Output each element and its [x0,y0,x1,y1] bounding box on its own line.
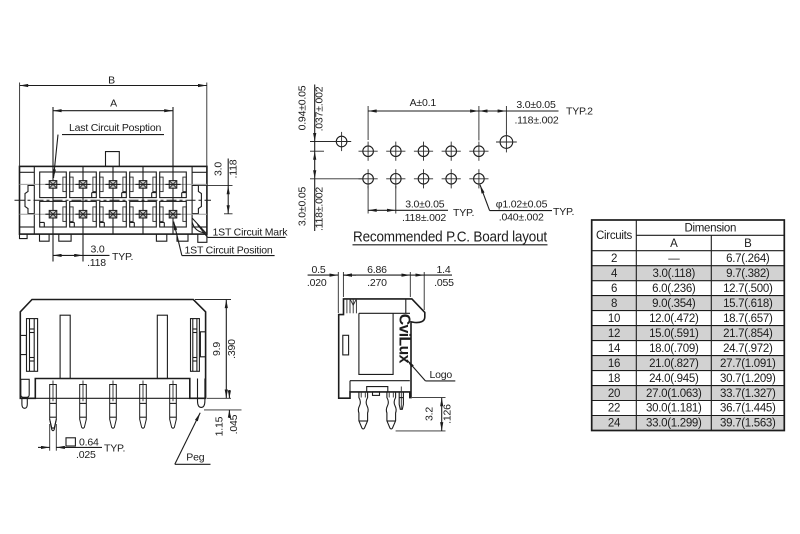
svg-text:.390: .390 [226,339,238,359]
svg-text:0.5: 0.5 [312,264,326,276]
svg-text:TYP.2: TYP.2 [566,105,593,117]
svg-text:Circuits: Circuits [596,230,632,242]
U cavity [359,313,393,374]
pad holes bottom row [359,169,489,188]
svg-text:—: — [668,253,680,265]
svg-text:24.0(.945): 24.0(.945) [649,373,699,385]
dimension 3.0/.118 (row spacing, right) [196,159,239,214]
svg-text:1ST Circuit Mark: 1ST Circuit Mark [213,227,289,239]
dimension A [53,98,173,111]
left peg stub [22,398,27,408]
svg-text:.055: .055 [434,277,454,289]
svg-text:33.7(1.327): 33.7(1.327) [720,388,776,400]
svg-text:33.0(1.299): 33.0(1.299) [646,418,702,430]
contacts top row [45,181,60,189]
right side latch profile [192,186,201,214]
svg-text:20: 20 [608,388,620,400]
svg-text:12: 12 [608,328,620,340]
svg-text:φ1.02±0.05: φ1.02±0.05 [496,199,548,211]
cavity cells bottom row [40,201,187,227]
connector body outline [20,166,207,234]
svg-text:.118: .118 [87,257,106,269]
svg-text:9.0(.354): 9.0(.354) [652,298,696,310]
top polarization tab [106,152,120,167]
dimension φ1.02±0.05/.040±.002 TYP. (hole dia) [480,185,574,224]
dimension 3.0±0.05/.118±.002 (left, row spacing) [296,170,362,231]
svg-text:Logo: Logo [430,369,453,381]
svg-text:.126: .126 [441,404,453,424]
title: Recommended P.C. Board layout [353,230,548,246]
svg-text:24: 24 [608,418,621,430]
svg-text:Recommended P.C. Board layout: Recommended P.C. Board layout [353,230,547,246]
table grid [592,220,785,431]
table data text [608,253,776,430]
dimension 3.2/.126 [396,398,454,431]
svg-text:.118: .118 [227,159,239,178]
column centerlines [53,107,173,262]
horizontal dash-dot centerline [15,199,212,201]
left peg (front) [21,379,29,397]
dimension 3.0±0.05/.118±.002 TYP.2 (peg offset) [479,99,593,133]
svg-text:Peg: Peg [186,452,204,464]
svg-text:3.0±0.05: 3.0±0.05 [405,199,445,211]
svg-text:.270: .270 [367,277,387,289]
svg-text:3.0: 3.0 [213,162,225,176]
svg-text:18: 18 [608,373,620,385]
dimension 3.0/.118 TYP (pitch, bottom) [53,243,133,269]
svg-text:30.7(1.209): 30.7(1.209) [720,373,776,385]
svg-text:8: 8 [611,298,617,310]
svg-text:6.7(.264): 6.7(.264) [726,253,770,265]
svg-text:6.86: 6.86 [367,264,387,276]
label: Logo [407,360,456,381]
right latch block [191,319,200,372]
1st circuit mark arc [192,218,206,234]
left side latch profile [25,186,34,214]
left latch block [27,319,38,372]
svg-text:.118±.002: .118±.002 [402,212,446,224]
left edge pocket [20,335,26,354]
svg-text:3.0: 3.0 [91,243,105,255]
dimension 6.86/.270 [343,264,410,297]
dimension A±0.1 [368,97,479,141]
svg-text:TYP.: TYP. [453,207,474,219]
side view body outline [20,300,205,399]
svg-text:B: B [744,238,752,250]
svg-text:4: 4 [611,268,618,280]
svg-text:15.7(.618): 15.7(.618) [723,298,773,310]
svg-text:18.7(.657): 18.7(.657) [723,313,773,325]
svg-text:3.0±0.05: 3.0±0.05 [296,187,308,227]
svg-text:27.7(1.091): 27.7(1.091) [720,358,776,370]
svg-text:6: 6 [611,283,617,295]
nose inner line [405,299,407,313]
svg-text:1.15: 1.15 [214,416,226,436]
peg hole right [496,132,517,153]
svg-text:.025: .025 [76,449,96,461]
cavity corner notches [40,193,187,227]
dimension 1.4/.055 [410,264,454,310]
svg-text:0.94±0.05: 0.94±0.05 [296,85,308,130]
pin 1 (long taper) [50,419,57,430]
svg-text:22: 22 [608,403,620,415]
svg-text:.045: .045 [228,414,240,434]
svg-text:16: 16 [608,358,620,370]
svg-text:CviLux: CviLux [396,314,413,364]
label: Peg [175,413,211,465]
svg-text:39.7(1.563): 39.7(1.563) [720,418,776,430]
dimension 9.9/.390 (height) [195,300,238,399]
svg-text:TYP.: TYP. [553,206,574,218]
svg-text:2: 2 [611,253,617,265]
svg-text:B: B [108,75,115,87]
svg-text:24.7(.972): 24.7(.972) [723,343,773,355]
row centerlines (gray) [20,183,207,185]
svg-text:15.0(.591): 15.0(.591) [649,328,699,340]
svg-text:3.0(.118): 3.0(.118) [653,268,696,280]
right peg [198,379,205,408]
dimension 0.64/.025 TYP. (pin square) [38,436,125,461]
svg-text:21.0(.827): 21.0(.827) [649,358,699,370]
svg-text:36.7(1.445): 36.7(1.445) [720,403,776,415]
svg-text:.118±.002: .118±.002 [314,187,326,231]
svg-text:.037±.002: .037±.002 [314,86,326,131]
table shaded rows [592,266,785,431]
peg hole left [332,132,351,151]
svg-text:1.4: 1.4 [437,264,451,276]
bottom center tab [367,387,388,392]
pad holes top row [359,142,489,161]
pin 1 extension lines [50,424,57,451]
svg-text:6.0(.236): 6.0(.236) [652,283,696,295]
svg-text:0.64: 0.64 [79,436,99,448]
right edge pocket [200,332,205,357]
svg-text:TYP.: TYP. [104,443,125,455]
svg-text:21.7(.854): 21.7(.854) [723,328,773,340]
board peg (profile) [399,387,403,410]
svg-text:9.9: 9.9 [211,342,223,356]
svg-text:Dimension: Dimension [684,223,736,235]
contacts bottom row [45,210,60,218]
svg-text:9.7(.382): 9.7(.382) [726,268,770,280]
svg-text:10: 10 [608,313,620,325]
dimension 0.5/.020 [307,264,356,313]
center slots [60,315,70,378]
crimp pin left [358,392,368,429]
roof underside [359,312,410,314]
svg-text:12.0(.472): 12.0(.472) [649,313,699,325]
svg-text:14: 14 [608,343,621,355]
label: Last Circuit Posption [54,122,165,178]
crimp pin left band [359,420,368,422]
cavity cells top row [40,172,187,198]
svg-text:.118±.002: .118±.002 [514,115,558,127]
svg-text:.040±.002: .040±.002 [499,212,544,224]
svg-text:A±0.1: A±0.1 [410,97,437,109]
dimension 0.94±0.05/.037±.002 (left, peg to row) [296,85,351,232]
label: 1ST Circuit Mark [198,225,289,239]
svg-text:1ST Circuit Position: 1ST Circuit Position [185,244,273,256]
housing floor line [350,380,410,382]
left window [343,335,349,355]
svg-text:TYP.: TYP. [112,251,133,263]
svg-text:30.0(1.181): 30.0(1.181) [646,403,702,415]
svg-text:Last Circuit Posption: Last Circuit Posption [69,122,161,134]
roof hatch marks [347,299,357,313]
svg-text:18.0(.709): 18.0(.709) [649,343,699,355]
bottom notch [373,392,380,396]
svg-text:12.7(.500): 12.7(.500) [723,283,773,295]
svg-text:A: A [670,238,678,250]
crimp pin right band [387,420,396,422]
svg-text:3.2: 3.2 [424,407,436,421]
svg-text:3.0±0.05: 3.0±0.05 [516,99,556,111]
pins (side view) [35,397,190,399]
crimp pin right [386,392,396,429]
cavity side ribs [63,177,186,221]
profile body outline [339,299,425,398]
svg-text:27.0(1.063): 27.0(1.063) [646,388,702,400]
mounting feet [20,234,207,242]
svg-text:A: A [110,98,117,110]
dimension 3.0±0.05/.118±.002 TYP. (hole pitch) [368,186,474,224]
dimension B [20,75,207,167]
label: 1ST Circuit Position [174,222,275,257]
svg-text:.020: .020 [307,277,327,289]
dimension 1.15/.045 (peg length) [204,390,242,436]
